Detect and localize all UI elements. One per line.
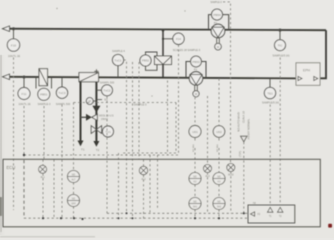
svg-text:SAMPLE 4: SAMPLE 4 xyxy=(112,49,125,53)
bottom edge streak xyxy=(0,236,95,238)
recorder NI box xyxy=(248,205,295,223)
signal: F14 down xyxy=(178,45,180,155)
motor M of P2 xyxy=(215,43,222,50)
svg-text:NO: NO xyxy=(217,202,221,204)
wire: EX vent tick xyxy=(96,99,102,101)
svg-text:AL3: AL3 xyxy=(205,175,210,178)
signal: lamp x208 drop xyxy=(207,96,209,164)
wire: sample branch T1 (thick) xyxy=(80,82,82,141)
svg-text:T2: T2 xyxy=(96,148,100,152)
svg-text:U01: U01 xyxy=(192,130,198,134)
wire: vertical connector upper to lower line xyxy=(162,30,164,56)
signal: PB52 down xyxy=(138,62,140,160)
signal: F11 down xyxy=(23,106,25,157)
pump P1 loop taps xyxy=(186,62,191,78)
node: junction F11 tap xyxy=(23,76,25,78)
svg-text:SAMPLE/5 (H): SAMPLE/5 (H) xyxy=(272,54,289,58)
svg-text:NI: NI xyxy=(253,201,256,205)
instrument UI2 xyxy=(213,126,225,138)
instrument TV1 xyxy=(103,126,114,137)
switch HS2 xyxy=(68,195,80,207)
wire: PB51 taps across filter xyxy=(35,77,37,89)
signal: panel bus xyxy=(24,217,248,219)
svg-text:NO: NO xyxy=(193,202,197,204)
svg-text:TxC2: TxC2 xyxy=(103,89,110,93)
pump P1 xyxy=(189,72,202,85)
svg-text:TV1: TV1 xyxy=(105,130,111,134)
svg-text:SAMPLE-3: SAMPLE-3 xyxy=(210,1,222,4)
wire: tap to TIC xyxy=(279,30,281,40)
wire: tap to F10 xyxy=(13,29,15,39)
signal: AL1 lamp drop xyxy=(42,160,44,166)
svg-text:F11: F11 xyxy=(22,92,27,96)
lamp AL2 xyxy=(139,166,147,174)
pump P2 loop taps xyxy=(209,15,212,30)
svg-text:AL10: AL10 xyxy=(228,174,234,177)
svg-text:P2: P2 xyxy=(194,67,198,71)
instrument TxC2 xyxy=(96,89,101,91)
arrow: recorder input T1 xyxy=(268,207,273,212)
switch HS4 (K3) xyxy=(213,173,225,185)
node: junction at F10 tap xyxy=(12,28,14,30)
svg-text:NO: NO xyxy=(193,177,197,179)
svg-text:ECU: ECU xyxy=(6,165,15,170)
heater + terminal xyxy=(94,70,98,72)
svg-text:SAM/PL 500: SAM/PL 500 xyxy=(56,102,71,106)
signal: TIC to recorder xyxy=(279,58,281,206)
svg-text:SA2: SA2 xyxy=(217,206,222,209)
arrow: recorder input T2 xyxy=(278,207,283,212)
node: junction upper line to x163 drop xyxy=(162,29,164,31)
signal: PB51 down xyxy=(43,106,45,160)
svg-text:SCALES 18 SAMPLE-3: SCALES 18 SAMPLE-3 xyxy=(173,48,201,52)
signal: HS column x194 xyxy=(194,185,196,198)
wire: sample branch T2 (thick) xyxy=(95,82,97,141)
instrument PB54 xyxy=(212,9,223,20)
wire: tap to TxC3 xyxy=(61,77,63,87)
arrow: lower line outlet (left) xyxy=(3,74,10,79)
signal: spare x167.5 xyxy=(167,81,169,156)
svg-text:MODL TV-U.S: MODL TV-U.S xyxy=(99,115,114,117)
check valve between T1 and T2 xyxy=(81,116,87,118)
svg-text:SAM/PL 500: SAM/PL 500 xyxy=(100,80,115,84)
signal: UI1 down to HS xyxy=(194,137,196,140)
signal: UI2 up xyxy=(218,79,220,126)
instrument PB51 xyxy=(38,88,50,100)
valve FE2 (meter body) on connector xyxy=(155,56,172,65)
wire: tap to TE1 xyxy=(269,78,271,87)
switch HS1 xyxy=(68,171,80,183)
left paper edge xyxy=(0,55,2,232)
svg-text:T1: T1 xyxy=(81,148,85,152)
svg-text:F14: F14 xyxy=(176,37,181,41)
svg-text:TxC1: TxC1 xyxy=(114,58,121,62)
signal: spare (x134) xyxy=(132,62,134,218)
tiny label texts xyxy=(8,1,290,218)
svg-text:U02: U02 xyxy=(216,130,222,134)
speck artifacts xyxy=(56,8,57,9)
signal: lamp x233 drop xyxy=(230,172,232,214)
motor M (solenoid coil) on T2 xyxy=(86,98,93,105)
svg-text:10A/TL 1E: 10A/TL 1E xyxy=(8,54,20,58)
signal: spare x115 xyxy=(118,153,120,218)
red registration dot xyxy=(328,224,332,228)
node: bus junction dots xyxy=(23,154,245,220)
control panel ECU xyxy=(3,136,320,227)
switch texts xyxy=(71,175,222,209)
signal: F10 down xyxy=(13,58,15,211)
arrow: upper line outlet (left) xyxy=(3,26,10,31)
wire: lower main sample line xyxy=(7,77,296,79)
instrument PB53 xyxy=(191,56,202,67)
signal: M1 to UI1 xyxy=(194,97,196,125)
svg-text:NO: NO xyxy=(72,199,76,201)
sample conditioning box EPH xyxy=(296,63,320,86)
pump P2 xyxy=(211,24,225,38)
switch HS6 (SA2) xyxy=(213,198,225,210)
wire: right down-comer from upper line xyxy=(320,30,326,78)
wire: PB52 upper tap xyxy=(146,52,158,56)
svg-text:M2 6B1: M2 6B1 xyxy=(217,143,219,151)
wire: PB52 lower tap xyxy=(146,65,158,71)
switch HS5 (SA1) xyxy=(189,198,201,210)
svg-text:SA1: SA1 xyxy=(193,206,198,209)
instrument PB52 xyxy=(140,55,151,66)
arrow: T1 outlet xyxy=(78,141,84,147)
motor M of P1 xyxy=(193,91,199,97)
svg-text:F10: F10 xyxy=(11,43,17,47)
signal: dashed box right xyxy=(175,103,177,154)
svg-text:CUN A 10: CUN A 10 xyxy=(241,111,245,123)
signal: TxC2 down xyxy=(106,96,108,213)
signal: TxC1 elbow xyxy=(124,60,127,213)
signal: spare x157.5 xyxy=(157,155,159,208)
filter FL1 on lower line xyxy=(39,69,48,86)
svg-text:10A/TL 1E: 10A/TL 1E xyxy=(18,102,30,106)
instrument TxC3 xyxy=(56,87,67,98)
svg-text:NO: NO xyxy=(72,175,76,177)
lamp AL10 xyxy=(227,164,235,172)
instrument bubbles: UI1 / UI2 xyxy=(189,126,225,138)
svg-text:PB53: PB53 xyxy=(192,60,200,64)
switch HS3 (K2) xyxy=(189,173,201,185)
instrument F10 xyxy=(7,39,19,51)
svg-text:TE1: TE1 xyxy=(267,91,273,95)
signal: trip connector down xyxy=(243,142,245,213)
signal: spare down (x54) xyxy=(53,160,55,219)
alarm trip triangle xyxy=(241,136,248,142)
node: junction TIC tap xyxy=(279,29,281,31)
signal: recorder feed bus xyxy=(107,212,248,214)
svg-text:EX: EX xyxy=(105,99,109,102)
svg-text:PB54: PB54 xyxy=(213,13,221,17)
svg-text:AL2: AL2 xyxy=(141,178,146,181)
svg-text:EPH: EPH xyxy=(303,69,311,73)
svg-text:PB51: PB51 xyxy=(40,93,48,97)
lamp AL3 xyxy=(204,165,212,173)
signal: dashed box top xyxy=(74,102,177,104)
instrument F14 xyxy=(173,33,184,44)
svg-text:P2: P2 xyxy=(214,21,218,25)
svg-text:SAMPLE/5 (H): SAMPLE/5 (H) xyxy=(262,101,279,105)
wire: F14 link to connector xyxy=(163,38,173,40)
svg-text:0/MAX: 0/MAX xyxy=(101,118,108,121)
instrument UI1 xyxy=(189,126,201,138)
svg-text:TIC: TIC xyxy=(278,44,284,48)
svg-text:SAMPLE-3: SAMPLE-3 xyxy=(38,102,51,106)
signal: panel dashed box left xyxy=(73,103,75,171)
wire: upper main sample line xyxy=(7,29,326,31)
signal: PB54 elbow down xyxy=(223,2,231,164)
signal: HS column x73.5 xyxy=(73,183,75,195)
signal: HS column x217.5 xyxy=(218,185,220,198)
signal: collector line y155 xyxy=(24,154,179,156)
svg-text:ALT: ALT xyxy=(71,179,76,182)
tiny instrument texts xyxy=(6,13,310,205)
rotated annotation column xyxy=(193,111,251,157)
signal: dashed box bottom xyxy=(122,152,176,154)
svg-text:AL1: AL1 xyxy=(40,176,45,179)
svg-text:OFF: OFF xyxy=(71,204,76,206)
instrument TIC xyxy=(275,40,286,51)
instrument TE1 xyxy=(264,87,275,98)
lamp AL1 xyxy=(39,165,47,173)
signal: TxC3 down xyxy=(61,105,63,219)
svg-text:NO AUTO MA/D: NO AUTO MA/D xyxy=(236,112,240,132)
valve SV1 (solenoid, closed) on T2 xyxy=(92,106,100,113)
svg-text:TxC3: TxC3 xyxy=(58,91,65,95)
instrument TxC1 xyxy=(112,54,123,65)
dashed signal lines xyxy=(14,2,281,219)
heater HE1 on lower line xyxy=(79,73,99,82)
svg-text:(T.P): (T.P) xyxy=(238,151,242,157)
svg-text:M1 6B1: M1 6B1 xyxy=(193,143,195,151)
wire: P1 motor shaft xyxy=(194,85,196,91)
arrow: T2 outlet xyxy=(93,141,99,147)
valve TV1 (control) on T2 xyxy=(91,126,96,134)
svg-text:NO: NO xyxy=(217,177,221,179)
bottom-left dark blob xyxy=(0,197,2,216)
svg-text:SAMPLE-3: SAMPLE-3 xyxy=(134,103,147,107)
svg-text:PB52: PB52 xyxy=(142,59,150,63)
arrow: recorder input left xyxy=(251,212,255,216)
signal: UI2 down to HS xyxy=(218,137,220,140)
wire: TxC1 to lower line xyxy=(117,66,119,78)
signal: spare x150 xyxy=(149,155,151,213)
svg-text:ASSAY NORMAL: ASSAY NORMAL xyxy=(246,118,250,139)
wire: tap to F11 xyxy=(23,77,25,88)
instrument F11 xyxy=(18,88,30,100)
signal: TE1 to recorder xyxy=(269,105,271,206)
wire: P2 motor shaft xyxy=(216,38,218,43)
signal: lamp AL2 drop xyxy=(143,160,145,167)
